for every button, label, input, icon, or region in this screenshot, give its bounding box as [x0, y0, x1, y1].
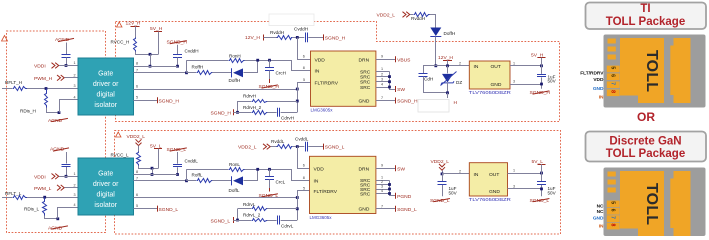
svg-text:Gate: Gate	[98, 171, 113, 178]
wire IN row TLV2	[442, 173, 469, 175]
svg-text:3: 3	[74, 193, 76, 197]
high-side dashed box	[116, 22, 560, 122]
svg-text:6: 6	[136, 85, 138, 89]
wire pin7 node up to RonH row	[186, 60, 188, 73]
left box corner marker	[2, 36, 8, 42]
svg-text:GND: GND	[489, 189, 500, 195]
wire RoffH to DoffH	[212, 72, 232, 74]
svg-text:1: 1	[381, 176, 383, 180]
svg-text:6: 6	[303, 164, 305, 168]
wire rail to LM VDD	[298, 38, 311, 60]
wire pin7 U2	[134, 180, 187, 182]
svg-text:TOLL: TOLL	[643, 183, 660, 225]
svg-text:NC: NC	[597, 204, 604, 210]
junction DoffH/IN row	[434, 64, 437, 67]
wire VDDI to pin1 (L)	[59, 176, 78, 178]
wire CdH bottom	[424, 77, 448, 93]
wire SRC4 (L)	[376, 193, 390, 195]
wire FLT node to LM pin5	[298, 83, 311, 90]
svg-text:8: 8	[610, 90, 616, 93]
junction rail node (L)	[151, 167, 154, 170]
wire DoffH to 12V_H node	[435, 37, 437, 66]
junction CrcL tap	[268, 168, 271, 171]
svg-text:IN: IN	[474, 172, 479, 178]
wire cap bottom to SGND (L out)	[541, 185, 543, 196]
junction pin8 rail (L)	[151, 173, 154, 176]
svg-text:4: 4	[74, 203, 76, 207]
Discrete GaN title box	[586, 132, 707, 162]
junction RdrvH_2 row	[236, 111, 239, 114]
svg-text:DRN: DRN	[359, 166, 370, 172]
svg-text:9: 9	[381, 164, 383, 168]
svg-text:8: 8	[303, 176, 305, 180]
svg-text:SGND_L: SGND_L	[397, 207, 417, 213]
svg-text:5: 5	[610, 201, 616, 204]
wire PWM_L to pin2	[65, 187, 79, 189]
svg-text:3: 3	[381, 185, 383, 189]
wire SGND to CvddL	[177, 152, 179, 164]
svg-text:IN: IN	[599, 223, 604, 229]
wire cap bottom to SGND	[541, 77, 543, 88]
junction SRC3	[388, 80, 391, 83]
svg-text:7: 7	[136, 68, 138, 72]
wire VDD2_L to RvddL	[271, 146, 277, 148]
wire SRC bus	[390, 72, 396, 90]
svg-text:DoffH: DoffH	[444, 31, 456, 36]
TOLL package 1 pin pad 5	[607, 66, 620, 73]
ground SGND_H (rail)	[323, 34, 325, 40]
wire rail to pin8	[150, 54, 152, 66]
junction VDDI node (L)	[65, 175, 68, 178]
junction VDD rail (L)	[296, 145, 299, 148]
wire VDD2_L down	[442, 170, 444, 174]
svg-text:LMG3605x: LMG3605x	[311, 108, 334, 113]
junction GND/cap (L)	[540, 188, 543, 191]
wire DoffH to junction	[244, 61, 258, 73]
svg-text:GND: GND	[359, 207, 370, 213]
svg-text:driver or: driver or	[93, 181, 119, 188]
svg-text:RoffH: RoffH	[192, 65, 204, 70]
TOLL package 1 pin pad 8	[607, 89, 620, 96]
svg-text:GND: GND	[359, 98, 370, 104]
svg-text:VDD: VDD	[314, 166, 325, 172]
svg-text:RoffL: RoffL	[192, 173, 203, 178]
resistor RVCC_H	[134, 38, 137, 52]
svg-text:9: 9	[381, 55, 383, 59]
TOLL package 1 pin pad 6	[607, 73, 620, 80]
svg-text:CdrvH: CdrvH	[281, 116, 294, 121]
high-side box corner marker	[117, 22, 123, 27]
svg-text:5: 5	[610, 66, 616, 69]
wire CvddL to pin8	[177, 167, 179, 174]
left isolator dashed box	[7, 31, 106, 233]
wire AGND to cap (L)	[66, 152, 68, 164]
junction pin8 CvddL	[176, 173, 179, 176]
svg-text:TOLL Package: TOLL Package	[606, 148, 685, 160]
resistor RDis_H	[45, 89, 48, 108]
TOLL package 1 drain tab	[670, 38, 690, 103]
white annotation box	[418, 100, 449, 113]
svg-text:CrcH: CrcH	[276, 70, 286, 75]
wire CdrvH to FLT node	[281, 112, 298, 114]
net label VBUS	[395, 56, 397, 62]
svg-text:3: 3	[381, 77, 383, 81]
junction FLT node	[296, 88, 299, 91]
wire CvddH to pin8	[177, 58, 179, 67]
svg-text:50V: 50V	[548, 190, 557, 195]
svg-text:RVCC_L: RVCC_L	[111, 153, 129, 158]
svg-text:H: H	[454, 100, 458, 106]
wire 5V_H down	[158, 32, 160, 55]
svg-text:IN: IN	[599, 95, 604, 101]
svg-text:5: 5	[136, 204, 138, 208]
svg-text:8: 8	[136, 62, 138, 66]
capacitor CvddI (VDDI decoupling)	[62, 54, 71, 56]
svg-text:CvddL: CvddL	[295, 136, 309, 141]
svg-text:SGND_H: SGND_H	[211, 111, 232, 117]
svg-text:6: 6	[303, 55, 305, 59]
svg-text:CrcL: CrcL	[276, 179, 286, 184]
capacitor CdrvL	[277, 216, 279, 225]
wire RdrvH to RdrvH_2 row	[237, 101, 239, 112]
svg-text:CdH: CdH	[424, 77, 433, 82]
LDO U3 TLV76050	[469, 61, 510, 89]
wire RFLT_L to pin3	[27, 197, 78, 199]
svg-text:TLV76050DBZR: TLV76050DBZR	[469, 90, 512, 95]
svg-text:digital: digital	[97, 192, 116, 199]
svg-text:7: 7	[610, 82, 616, 85]
TOLL package 1 substrate	[604, 35, 706, 108]
wire cap to VDDI node (L)	[66, 167, 68, 176]
svg-text:8: 8	[136, 170, 138, 174]
svg-text:VDD: VDD	[593, 77, 604, 83]
wire CvddL to SGND (L)	[308, 146, 323, 148]
svg-text:FLT/RDRV: FLT/RDRV	[314, 189, 338, 195]
svg-text:RvddH: RvddH	[270, 30, 284, 35]
wire SRC3	[376, 81, 390, 83]
svg-text:12V_H: 12V_H	[245, 35, 260, 41]
wire pin8 U1	[134, 66, 178, 68]
svg-text:GND: GND	[593, 86, 604, 92]
svg-text:2: 2	[74, 74, 76, 78]
svg-text:2: 2	[459, 61, 461, 65]
wire VDDI to pin1	[59, 65, 78, 67]
wire AGND to cap	[66, 43, 68, 55]
svg-text:SRC: SRC	[360, 80, 371, 86]
svg-text:1: 1	[74, 172, 76, 176]
net label SGND_L (Q2 GND)	[395, 206, 397, 212]
svg-text:FLT/RDRV: FLT/RDRV	[580, 70, 604, 76]
junction RdrvL row	[296, 207, 299, 210]
svg-text:OR: OR	[637, 110, 655, 124]
svg-text:LMG3605x: LMG3605x	[310, 215, 333, 220]
svg-text:CvddH: CvddH	[294, 27, 308, 32]
svg-text:6: 6	[610, 74, 616, 77]
diode DoffH (gate)	[231, 68, 233, 77]
junction SRC3 (L)	[388, 188, 391, 191]
junction SRC4 (L)	[388, 192, 391, 195]
junction TLV2 IN node	[441, 173, 444, 176]
wire CdrvL to FLT node	[281, 220, 298, 222]
TOLL package 2 pin pad 6	[607, 208, 620, 215]
wire GND TLV1	[510, 84, 542, 86]
svg-text:2: 2	[74, 183, 76, 187]
svg-text:3: 3	[74, 84, 76, 88]
svg-text:7: 7	[136, 176, 138, 180]
svg-text:OUT: OUT	[489, 172, 499, 178]
TOLL package 2 drain tab	[670, 171, 690, 236]
svg-text:RDis_L: RDis_L	[24, 206, 40, 211]
TOLL package 1 main pad	[620, 38, 664, 103]
TOLL package 2 pin pad 5	[607, 201, 620, 208]
junction RFLT/RDis node (L)	[43, 196, 46, 199]
wire pin7 node up to RonL row	[186, 169, 188, 181]
wire DZ bottom	[447, 82, 449, 92]
TOLL package 1 pin pad 7	[607, 81, 620, 88]
wire CrcL to SGND	[269, 180, 271, 189]
junction FLT node (L)	[296, 196, 299, 199]
junction DZ bottom	[446, 91, 449, 94]
svg-text:RFLT_H: RFLT_H	[5, 80, 22, 85]
svg-text:isolator: isolator	[94, 102, 117, 109]
wire DRN to VBUS	[376, 59, 396, 61]
diode DoffH (feed, down)	[430, 28, 441, 37]
ground SGND_L (rail)	[323, 144, 325, 150]
wire rail to LM2 VDD	[298, 147, 310, 169]
wire PWM_H to pin2	[65, 77, 79, 79]
capacitor CvddL	[173, 164, 182, 166]
wire 12V_H to RvddH	[264, 37, 277, 39]
svg-text:SW: SW	[397, 87, 405, 93]
wire RonL to LM IN	[245, 170, 310, 181]
junction SRC2	[388, 75, 391, 78]
svg-text:RvddH: RvddH	[411, 16, 425, 21]
svg-text:VDD2_L: VDD2_L	[377, 13, 396, 19]
wire pin5 U2 to SGND	[134, 208, 158, 210]
GaN FET Q1 (LM chip)	[311, 51, 376, 106]
wire SRC bus (L)	[390, 181, 396, 196]
svg-text:5: 5	[303, 78, 305, 82]
svg-text:DoffH: DoffH	[229, 78, 241, 83]
wire OUT TLV2	[508, 173, 542, 175]
wire FLT node down	[297, 89, 299, 112]
svg-text:7: 7	[381, 204, 383, 208]
capacitor CrcL	[269, 169, 271, 176]
wire pin6 U2 to FLT node	[134, 197, 298, 199]
svg-text:RdrvL_2: RdrvL_2	[243, 213, 261, 218]
svg-text:SGND_H: SGND_H	[397, 99, 418, 105]
svg-text:GND: GND	[593, 215, 604, 221]
wire RFLT_H to pin3	[27, 88, 78, 90]
wire RvddH to DoffH	[430, 15, 436, 28]
ground SGND_L (U2 pin5)	[157, 206, 159, 212]
wire RVCC_H to 5V rail	[136, 52, 159, 55]
svg-text:PWM_L: PWM_L	[34, 186, 52, 192]
svg-text:SGND_H: SGND_H	[325, 35, 346, 41]
wire SRC4	[376, 87, 390, 89]
svg-text:12V_H: 12V_H	[126, 21, 141, 27]
wire OUT TLV1	[510, 65, 542, 67]
svg-text:IN: IN	[474, 64, 479, 70]
junction CrcH tap	[268, 59, 271, 62]
wire GND Q2	[376, 208, 396, 210]
junction pin4 node (L)	[56, 217, 59, 220]
wire CrcH to SGND	[269, 71, 271, 80]
net label PGND	[395, 193, 397, 199]
svg-text:7: 7	[610, 216, 616, 219]
svg-text:8: 8	[303, 66, 305, 70]
wire RdrvL to RdrvL_2 row	[237, 209, 239, 220]
svg-text:SGND_L: SGND_L	[325, 145, 345, 151]
svg-text:Discrete GaN: Discrete GaN	[609, 135, 681, 147]
junction 5V node	[540, 64, 543, 67]
capacitor CoutH 1uF 50V	[541, 66, 543, 74]
junction pin7 branch	[185, 71, 188, 74]
junction RonL/DoffL	[256, 168, 259, 171]
capacitor CinL 1uF 50V	[442, 174, 444, 182]
svg-text:SRC: SRC	[360, 74, 371, 80]
svg-text:VDD2_L: VDD2_L	[431, 159, 450, 165]
svg-text:DoffL: DoffL	[229, 188, 240, 193]
svg-text:8: 8	[610, 223, 616, 226]
TOLL package 2 main pad	[620, 171, 664, 236]
wire CvddH to SGND	[308, 37, 323, 39]
junction pin7 branch (L)	[185, 179, 188, 182]
svg-text:DZ: DZ	[456, 80, 462, 85]
svg-text:driver or: driver or	[93, 81, 119, 88]
svg-text:2: 2	[381, 72, 383, 76]
net label SW (H)	[395, 86, 397, 92]
svg-text:CvddL: CvddL	[185, 159, 199, 164]
wire FLT node down (L)	[297, 198, 299, 221]
capacitor CrcH	[269, 60, 271, 67]
wire GND TLV2	[508, 188, 542, 190]
svg-text:CvddH: CvddH	[185, 48, 199, 53]
wire RoffL to DoffL	[212, 180, 232, 182]
svg-text:SGND_H: SGND_H	[159, 98, 180, 104]
svg-text:50V: 50V	[449, 190, 458, 195]
TOLL package 2 substrate	[604, 168, 706, 237]
svg-text:IN: IN	[315, 69, 320, 75]
gate driver U1 block	[78, 58, 134, 115]
wire DRN to SW	[376, 168, 396, 170]
TOLL package 2 gate bumps	[608, 172, 616, 177]
wire SRC1 (L)	[376, 180, 390, 182]
wire pin4 (L)	[58, 208, 79, 219]
svg-text:PWM_H: PWM_H	[34, 76, 53, 82]
white annotation box (top rail)	[269, 14, 314, 26]
junction 5V node (L)	[540, 172, 543, 175]
svg-text:4: 4	[381, 189, 383, 193]
zener diode DZ	[447, 66, 449, 74]
wire DoffL to junction	[244, 170, 258, 181]
junction VDD rail	[296, 36, 299, 39]
wire cap to SGND (L in)	[442, 185, 444, 196]
junction pin8 CvddH	[176, 65, 179, 68]
svg-text:CdrvL: CdrvL	[281, 223, 294, 228]
capacitor CoutL 1uF 50V	[541, 173, 543, 181]
LDO U4 TLV76050	[469, 163, 507, 196]
svg-text:RonL: RonL	[229, 162, 240, 167]
svg-text:3: 3	[513, 80, 515, 84]
svg-text:7: 7	[381, 96, 383, 100]
svg-text:PGND: PGND	[397, 194, 412, 200]
svg-text:1: 1	[513, 169, 515, 173]
junction VDDI node	[65, 64, 68, 67]
junction SRC4	[388, 86, 391, 89]
svg-text:digital: digital	[97, 92, 116, 99]
diode DoffL (gate)	[231, 176, 233, 185]
wire pin6 U1 to FLT node	[134, 89, 298, 91]
svg-text:2: 2	[459, 169, 461, 173]
svg-text:SRC: SRC	[360, 69, 371, 75]
svg-text:RDis_H: RDis_H	[20, 109, 36, 114]
svg-text:6: 6	[610, 209, 616, 212]
wire rail to pin8 (L)	[152, 168, 154, 174]
svg-text:3: 3	[513, 184, 515, 188]
resistor RDis_L	[43, 198, 47, 216]
wire pin4	[60, 100, 79, 113]
svg-text:SW: SW	[397, 166, 405, 172]
junction GND/cap	[540, 83, 543, 86]
wire VDD2_L to RvddH	[410, 14, 413, 16]
capacitor CdrvH	[277, 108, 279, 117]
svg-text:VDDI: VDDI	[34, 64, 46, 70]
wire pin8 U2	[134, 174, 178, 176]
svg-text:50V: 50V	[548, 79, 557, 84]
svg-text:SRC: SRC	[360, 85, 371, 91]
junction RFLT/RDis node	[45, 87, 48, 90]
net label SGND_H (Q1 GND)	[395, 98, 397, 104]
svg-text:1: 1	[74, 61, 76, 65]
wire RonH to LM IN	[245, 61, 311, 71]
capacitor CdH	[423, 66, 425, 73]
net label SW (L)	[395, 165, 397, 171]
wire cap to VDDI node	[66, 58, 68, 66]
svg-text:VDD: VDD	[315, 57, 326, 63]
wire SRC2 (L)	[376, 184, 390, 186]
svg-text:FLT/RDRV: FLT/RDRV	[315, 80, 339, 86]
wire RVCC_L to 5V rail (L)	[139, 166, 159, 169]
svg-text:4: 4	[381, 83, 383, 87]
svg-text:TOLL: TOLL	[643, 50, 660, 92]
TOLL package 2 pin pad 8	[607, 223, 620, 230]
wire VDD2_L to RVCC_L	[138, 146, 140, 152]
junction SRC2 (L)	[388, 183, 391, 186]
svg-text:VDD2_L: VDD2_L	[238, 145, 257, 151]
junction RonH/DoffH	[256, 59, 259, 62]
svg-text:RonH: RonH	[229, 54, 241, 59]
wire FLT node to LM2 pin5	[298, 191, 310, 198]
junction pin4 node	[58, 111, 61, 114]
svg-text:1: 1	[381, 67, 383, 71]
svg-text:GND: GND	[491, 82, 502, 88]
wire pin7 U1	[134, 72, 187, 74]
svg-text:DRN: DRN	[359, 57, 370, 63]
svg-text:RvddL: RvddL	[271, 139, 285, 144]
svg-text:4: 4	[74, 95, 76, 99]
svg-text:OUT: OUT	[491, 64, 501, 70]
wire GND Q1	[376, 100, 396, 102]
svg-text:SRC: SRC	[360, 191, 371, 197]
junction zener node	[446, 64, 449, 67]
svg-text:5: 5	[136, 96, 138, 100]
TI TOLL Package title box	[586, 3, 707, 30]
junction pin8 rail	[149, 65, 152, 68]
wire to hidden ground	[447, 93, 449, 98]
resistor RVCC_L	[137, 152, 141, 166]
wire pin5 U1 to SGND	[134, 100, 158, 102]
